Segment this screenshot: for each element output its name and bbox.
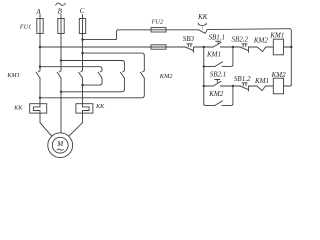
svg-text:M: M xyxy=(56,140,64,148)
svg-text:FU1: FU1 xyxy=(19,24,31,31)
contact KM1 pole C xyxy=(79,71,83,78)
svg-text:KM1: KM1 xyxy=(6,72,19,79)
svg-text:KK: KK xyxy=(95,103,105,110)
motor M outer circle xyxy=(48,133,73,158)
wire KM2 interlock to KM1 coil xyxy=(266,46,274,48)
wire tap A to KM2 pole1 xyxy=(40,67,102,71)
wire KM2 coil to right rail xyxy=(284,85,290,87)
wire SB2.1 to SB1.2 xyxy=(220,85,240,87)
wire left riser to rung2 xyxy=(203,66,205,86)
wire SB1.1 to SB2.2 xyxy=(220,46,240,48)
svg-text:KM2: KM2 xyxy=(208,90,224,98)
fuse FU2 lower xyxy=(151,45,166,49)
node junction dot loop left xyxy=(203,65,205,67)
wire tap C to KM2 pole3 xyxy=(83,53,145,70)
motor tilde xyxy=(57,149,63,150)
contact KM1 aux NO xyxy=(215,62,223,67)
node junction dot rung2 left xyxy=(203,85,205,87)
contact KM2 pole1 xyxy=(98,71,102,78)
pushbutton SB1.1 (NO start fwd) xyxy=(213,41,221,47)
svg-text:KM1: KM1 xyxy=(254,77,269,85)
wire KM1 coil to right rail xyxy=(284,46,292,48)
motor M inner circle xyxy=(52,137,68,153)
contact KM2 aux NO xyxy=(215,101,223,106)
contact KM1 pole A xyxy=(36,71,40,78)
wire motor lead right xyxy=(69,123,83,137)
thermal element KK left xyxy=(30,104,47,123)
wire motor lead left xyxy=(40,123,52,137)
wire phase A to thermal element xyxy=(39,78,41,107)
wire KK to right rail xyxy=(207,29,291,86)
svg-text:B: B xyxy=(58,7,63,15)
pushbutton SB1.2 (NC of forward button) xyxy=(241,83,249,91)
pushbutton SB3 (NC stop) xyxy=(186,44,194,53)
svg-text:KK: KK xyxy=(13,105,23,112)
wire KM1 interlock to KM2 coil xyxy=(249,85,274,87)
coil KM1 xyxy=(273,39,283,55)
node junction dot right rail xyxy=(290,46,292,48)
coil KM2 xyxy=(273,78,283,94)
svg-text:A: A xyxy=(35,8,41,16)
node junction dot B out xyxy=(60,91,62,93)
wire KM2 pole1 out to phase C line xyxy=(83,78,103,85)
svg-text:FU2: FU2 xyxy=(150,18,164,25)
svg-text:SB1.2: SB1.2 xyxy=(234,75,251,83)
contact KM1 NC interlock rung2 xyxy=(257,86,266,91)
node junction dot C lower tap xyxy=(81,52,83,54)
node junction dot B tap xyxy=(60,59,62,61)
svg-text:SB1.1: SB1.1 xyxy=(209,33,226,41)
wire tap B to KM2 pole2 xyxy=(61,61,124,71)
wire SB3 to SB1.1 xyxy=(194,46,214,48)
svg-text:KK: KK xyxy=(197,14,208,21)
contact KM2 pole2 xyxy=(121,71,125,78)
wire motor lead middle xyxy=(60,78,62,133)
thermal relay NC contact KK xyxy=(198,23,207,33)
wire SB2.2 to KM2 interlock xyxy=(249,46,258,48)
contact KM2 pole3 xyxy=(140,71,144,78)
wire phase C drop to fuse xyxy=(82,14,84,70)
svg-text:KM2: KM2 xyxy=(271,71,287,79)
node junction dot A tap xyxy=(39,46,41,48)
svg-text:SB2.2: SB2.2 xyxy=(232,36,249,44)
wire KM2 pole3 out to phase A line xyxy=(40,78,144,98)
pushbutton SB2.2 (NC of reverse button) xyxy=(241,44,249,53)
node junction dot rung2 mid xyxy=(232,85,234,87)
fuse FU1-B xyxy=(58,19,64,34)
wire rung2 left xyxy=(204,85,214,87)
svg-text:SB3: SB3 xyxy=(183,35,195,43)
svg-text:KM1: KM1 xyxy=(206,51,221,59)
pushbutton SB2.1 (NO start rev) xyxy=(213,80,221,87)
wire phase C to thermal element xyxy=(82,78,84,107)
node junction dot A lower tap xyxy=(39,66,41,68)
wire phase A drop to fuse xyxy=(39,14,41,70)
wire phase B drop to fuse xyxy=(60,14,62,70)
wire control tap from C to FU2 upper fuse xyxy=(83,30,199,40)
fuse FU1-C xyxy=(79,19,85,34)
svg-text:KM2: KM2 xyxy=(159,73,174,80)
svg-text:KM2: KM2 xyxy=(253,37,269,45)
node junction dot rung1 left xyxy=(203,46,205,48)
thermal element KK right xyxy=(76,104,93,123)
wire KM2 aux parallel loop xyxy=(204,86,233,105)
wire KM2 pole2 out to phase B line xyxy=(61,78,124,92)
fuse FU1-A xyxy=(37,19,43,34)
AC tilde mark over phase B xyxy=(56,3,66,5)
node junction dot C out xyxy=(81,84,83,86)
node junction dot C tap xyxy=(81,38,83,40)
node junction dot rung1 right of SB1.1 xyxy=(232,46,234,48)
svg-text:SB2.1: SB2.1 xyxy=(210,70,227,78)
node junction dot A out xyxy=(39,97,41,99)
wire control tap from A to FU2 lower fuse xyxy=(40,46,186,48)
svg-text:C: C xyxy=(80,7,85,15)
contact KM2 NC interlock xyxy=(257,47,266,52)
fuse FU2 upper xyxy=(151,28,166,32)
contact KM1 pole B xyxy=(57,71,61,78)
svg-text:KM1: KM1 xyxy=(269,31,284,39)
wire KM1 aux parallel loop xyxy=(204,47,233,66)
